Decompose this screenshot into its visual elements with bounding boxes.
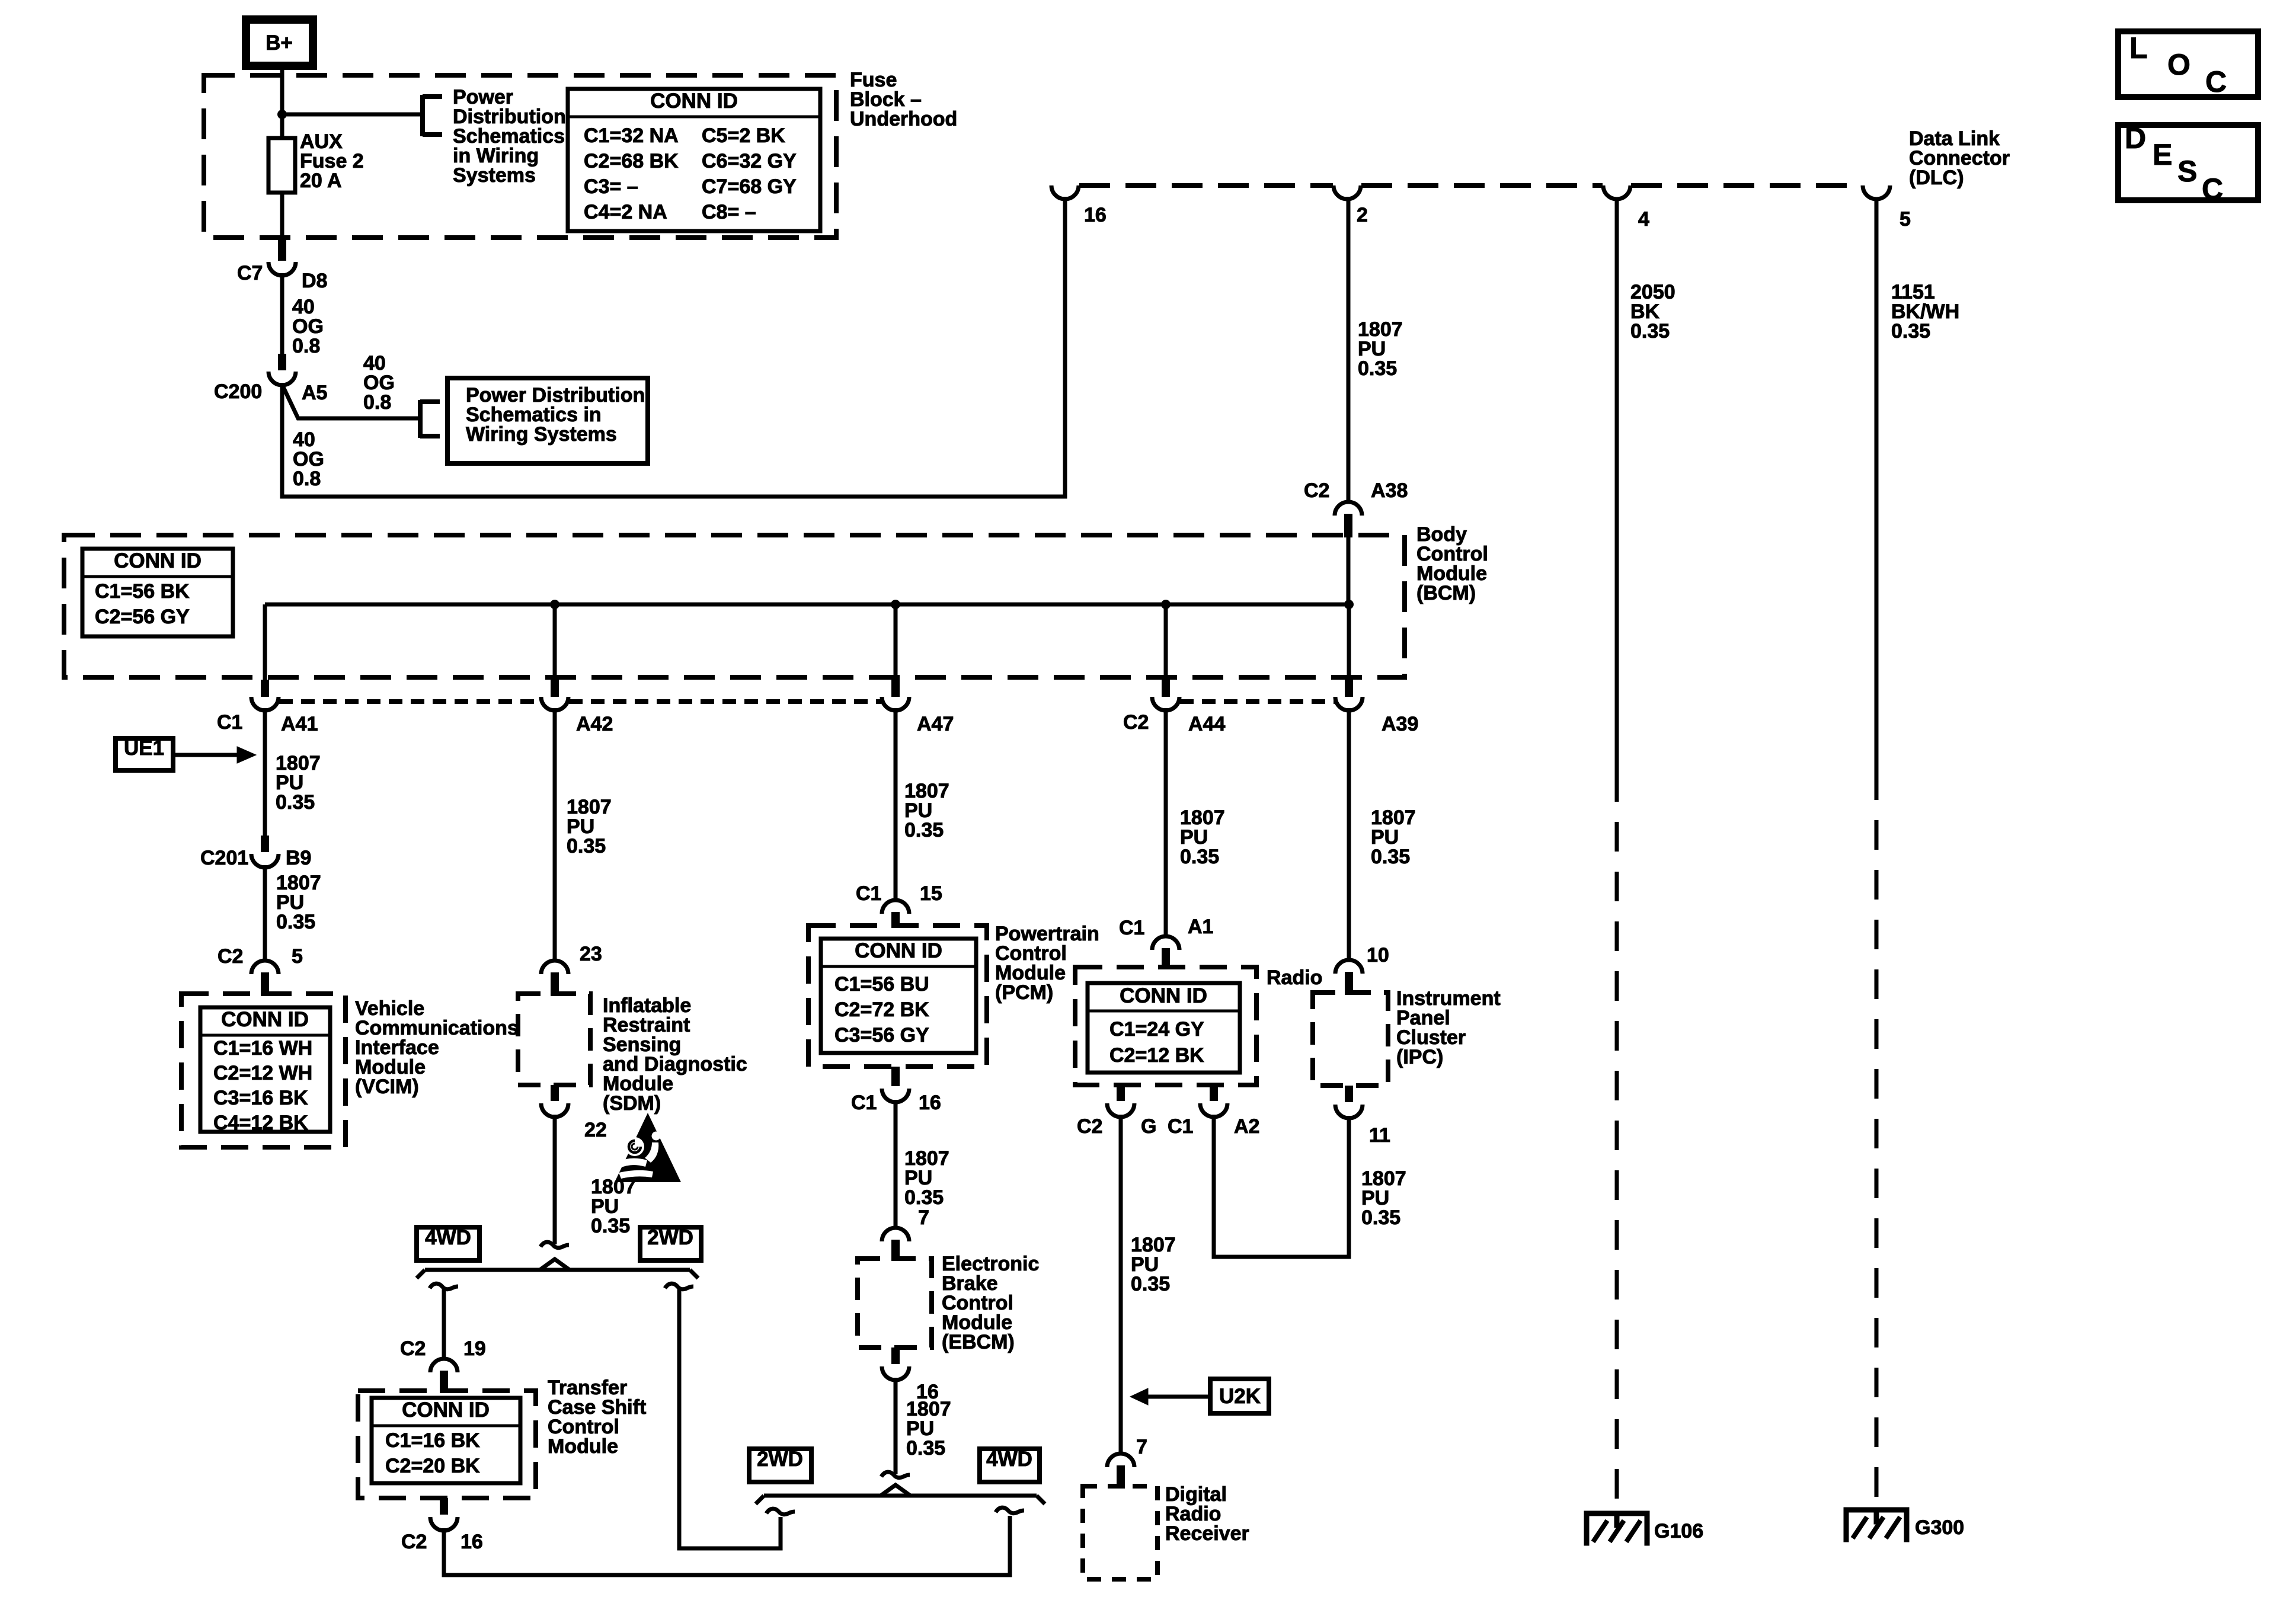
svg-text:0.35: 0.35 [1131, 1273, 1170, 1295]
DLC pin 5 [1863, 185, 1911, 231]
svg-text:10: 10 [1367, 944, 1389, 966]
svg-text:G106: G106 [1654, 1520, 1703, 1542]
body control module dashed box [64, 535, 1405, 677]
label 1807 PU 0.35 A47 [904, 780, 949, 841]
svg-text:C1=24 GY: C1=24 GY [1109, 1018, 1204, 1041]
node junction at fuse feed [277, 110, 287, 119]
vehicle communications interface module dashed box [181, 994, 346, 1147]
label 40 OG 0.8 below C200 [293, 428, 324, 490]
battery B+ feed box [246, 20, 313, 66]
svg-text:Wiring Systems: Wiring Systems [466, 423, 617, 446]
label EBCM [942, 1253, 1039, 1353]
svg-text:D8: D8 [302, 270, 327, 292]
svg-text:A1: A1 [1188, 916, 1213, 938]
DLC pin 16 [1051, 185, 1107, 226]
svg-text:C3= –: C3= – [584, 175, 638, 198]
label 1807 PU 0.35 pin2 [1358, 318, 1403, 380]
option hook split2 right [996, 1507, 1024, 1513]
wire A5 down and right to DLC pin 16 [282, 197, 1065, 497]
TCCM pin C2 16 cup [401, 1498, 483, 1553]
connector C2 pin 5 into VCIM [218, 945, 303, 996]
svg-text:CONN ID: CONN ID [855, 939, 942, 962]
svg-text:C1=16 BK: C1=16 BK [385, 1429, 480, 1452]
svg-text:B9: B9 [286, 847, 311, 869]
svg-text:16: 16 [1084, 204, 1107, 226]
svg-text:0.35: 0.35 [1891, 320, 1930, 343]
svg-text:C2: C2 [1304, 479, 1329, 502]
junction dot A47 [891, 600, 900, 609]
svg-text:B+: B+ [266, 31, 293, 55]
wire B+ to fuse [280, 66, 284, 138]
connector C200 pin A5 [214, 372, 327, 404]
svg-text:22: 22 [584, 1119, 607, 1141]
label Digital Radio Receiver [1165, 1483, 1249, 1545]
inflatable restraint SDM dashed box [518, 994, 590, 1085]
wire EBCM 16 to option split 2 [894, 1378, 898, 1474]
svg-text:C7=68 GY: C7=68 GY [702, 175, 797, 198]
label Data Link Connector (DLC) [1909, 127, 2010, 189]
option hook 2WD branch [665, 1283, 693, 1289]
label 1807 PU 0.35 A39 [1371, 806, 1416, 868]
option hook split2 left [766, 1509, 795, 1515]
svg-text:4WD: 4WD [986, 1448, 1032, 1471]
option hook 4WD branch [430, 1283, 458, 1289]
connector pin 7 into DRR [1107, 1436, 1147, 1489]
svg-text:L: L [2129, 31, 2148, 65]
wire A41 to C201 [261, 708, 269, 852]
U2K callout box and arrow [1130, 1379, 1269, 1413]
svg-text:0.8: 0.8 [293, 468, 321, 490]
svg-text:C2: C2 [218, 945, 243, 968]
wire branch C200 to reference [282, 385, 421, 418]
DLC pin 4 [1603, 185, 1649, 231]
4WD option box [417, 1226, 479, 1260]
label 1807 PU 0.35 IPC11 [1361, 1167, 1406, 1229]
UE1 callout box and arrow [116, 737, 256, 770]
ground G106 [1584, 1511, 1703, 1545]
svg-text:C5=2 BK: C5=2 BK [702, 124, 785, 147]
svg-text:C3=56 GY: C3=56 GY [834, 1024, 929, 1046]
wire A39 to IPC [1347, 708, 1351, 960]
label 1807 PU 0.35 below C201 [276, 872, 321, 933]
BCM internal bus [265, 535, 1349, 604]
svg-text:C2=56 GY: C2=56 GY [95, 606, 190, 628]
svg-text:2WD: 2WD [757, 1448, 803, 1471]
label fuse block underhood [850, 69, 957, 130]
wire DLC pin 2 to BCM A38 [1347, 197, 1351, 502]
svg-text:23: 23 [580, 943, 602, 965]
4WD option box 2 [980, 1448, 1040, 1482]
svg-text:S: S [2177, 155, 2197, 188]
label 1807 PU 0.35 A42 [567, 796, 612, 857]
label SDM [603, 994, 747, 1115]
svg-text:C2=12 BK: C2=12 BK [1109, 1044, 1204, 1067]
label Radio [1267, 966, 1322, 989]
2WD option box 2 [749, 1448, 811, 1482]
label TCCM [548, 1377, 646, 1458]
CONN ID table Radio [1088, 983, 1240, 1073]
connector pin 23 into SDM [541, 943, 602, 996]
svg-text:2: 2 [1357, 204, 1368, 226]
wire 4WD branch to TCCM [442, 1289, 446, 1359]
svg-text:15: 15 [920, 882, 942, 905]
svg-text:0.35: 0.35 [904, 1186, 944, 1209]
label 1807 PU 0.35 G wire [1131, 1234, 1176, 1295]
svg-text:2WD: 2WD [647, 1226, 693, 1249]
wire A47 to PCM [894, 708, 898, 900]
label 40 OG 0.8 branch [363, 352, 395, 414]
BCM pin A44 cup [1123, 697, 1225, 735]
label 1807 PU 0.35 EBCM16 [906, 1398, 951, 1459]
BCM drop A41 [261, 604, 269, 697]
PCM pin C1 16 cup [851, 1067, 941, 1114]
svg-text:A44: A44 [1188, 713, 1225, 735]
svg-text:0.8: 0.8 [363, 391, 391, 414]
svg-text:19: 19 [463, 1337, 486, 1360]
svg-text:0.35: 0.35 [1180, 846, 1219, 868]
svg-text:A41: A41 [281, 713, 318, 735]
svg-text:A5: A5 [302, 382, 327, 404]
svg-text:C8= –: C8= – [702, 201, 756, 223]
BCM drop A47 [891, 604, 900, 697]
svg-text:A47: A47 [917, 713, 954, 735]
svg-text:C2: C2 [400, 1337, 426, 1360]
fuse block underhood dashed box [204, 75, 836, 238]
BCM connector C2 dotted line [1180, 699, 1335, 704]
connector C201 pin B9 [200, 847, 311, 869]
DESC legend box [2118, 121, 2258, 206]
svg-text:A39: A39 [1382, 713, 1418, 735]
CONN ID table BCM [82, 549, 233, 636]
wire A44 to Radio [1164, 708, 1168, 936]
label 1807 PU 0.35 A44 [1180, 806, 1225, 868]
svg-text:G: G [1141, 1115, 1156, 1138]
svg-text:0.35: 0.35 [591, 1215, 630, 1237]
connector C1 pin 15 into PCM [856, 882, 942, 928]
svg-text:16: 16 [919, 1092, 941, 1114]
svg-text:C1: C1 [217, 711, 242, 734]
reference bracket power distribution [423, 95, 442, 136]
wire DLC pin 5 to G300 [1875, 200, 1879, 1507]
svg-text:4: 4 [1638, 208, 1649, 231]
wire fuse to C7 [278, 193, 286, 261]
data link connector dashed line [1079, 183, 1862, 188]
label AUX Fuse 2 20 A [300, 130, 364, 192]
label 1807 PU 0.35 A41 [276, 752, 321, 814]
svg-text:O: O [2167, 48, 2191, 81]
svg-text:(IPC): (IPC) [1396, 1046, 1443, 1068]
connector C1 pin A1 into Radio [1119, 916, 1213, 969]
svg-text:CONN ID: CONN ID [114, 549, 202, 572]
svg-text:Underhood: Underhood [850, 108, 957, 130]
SDM pin 22 cup [541, 1085, 607, 1141]
junction dot A42 [550, 600, 559, 609]
BCM pin A47 cup [882, 697, 954, 735]
svg-text:UE1: UE1 [124, 737, 164, 760]
svg-text:0.35: 0.35 [904, 819, 944, 841]
svg-text:(PCM): (PCM) [995, 981, 1053, 1004]
radio pin C2 G cup [1077, 1085, 1156, 1138]
svg-text:C2: C2 [1077, 1115, 1102, 1138]
label Body Control Module (BCM) [1416, 523, 1488, 604]
svg-text:0.35: 0.35 [276, 791, 315, 814]
svg-text:0.35: 0.35 [1371, 846, 1410, 868]
wire C201 to VCIM [263, 865, 267, 961]
svg-text:Radio: Radio [1267, 966, 1322, 989]
svg-text:D: D [2125, 121, 2146, 155]
svg-text:(EBCM): (EBCM) [942, 1331, 1015, 1353]
wire junction to reference bracket [282, 113, 421, 117]
svg-text:CONN ID: CONN ID [221, 1008, 309, 1031]
svg-text:(VCIM): (VCIM) [355, 1076, 419, 1098]
svg-text:CONN ID: CONN ID [1120, 984, 1207, 1007]
svg-text:C: C [2202, 172, 2223, 206]
fuse AUX Fuse 2 20 A [268, 138, 295, 193]
reference box power distribution schematics [447, 378, 648, 463]
svg-text:C7: C7 [237, 262, 263, 284]
svg-text:C1=56 BU: C1=56 BU [834, 973, 929, 996]
label PCM [995, 923, 1099, 1004]
svg-text:C1: C1 [1119, 917, 1144, 939]
svg-text:C2=20 BK: C2=20 BK [385, 1455, 480, 1477]
svg-text:C1: C1 [1168, 1115, 1193, 1138]
instrument panel cluster dashed box [1313, 993, 1388, 1086]
connector C2 pin 19 into TCCM [400, 1337, 486, 1393]
label IPC [1396, 987, 1501, 1068]
svg-text:C1=32 NA: C1=32 NA [584, 124, 679, 147]
svg-text:A38: A38 [1371, 479, 1408, 502]
svg-text:0.35: 0.35 [1361, 1206, 1400, 1229]
svg-text:0.35: 0.35 [1358, 357, 1397, 380]
BCM drop A42 [551, 604, 559, 697]
svg-text:A42: A42 [576, 713, 613, 735]
svg-text:0.35: 0.35 [567, 835, 606, 857]
svg-text:C6=32 GY: C6=32 GY [702, 150, 797, 172]
reference bracket 2 [420, 400, 440, 438]
wire PCM 16 to EBCM [894, 1100, 898, 1228]
svg-text:0.35: 0.35 [276, 911, 315, 933]
wire C7 to C200 label 40 OG 0.8 [278, 273, 324, 370]
svg-text:CONN ID: CONN ID [650, 89, 738, 113]
svg-text:(BCM): (BCM) [1416, 582, 1476, 604]
wire radio G to DRR [1119, 1115, 1123, 1454]
label power distribution schematics (fuse block) [453, 86, 566, 187]
BCM drop A44 [1162, 604, 1170, 697]
IPC pin 11 cup [1335, 1086, 1390, 1147]
BCM pin A42 cup [541, 697, 613, 735]
svg-text:C2=68 BK: C2=68 BK [584, 150, 679, 172]
option split brace 1 [417, 1259, 698, 1278]
svg-text:CONN ID: CONN ID [402, 1398, 490, 1422]
svg-text:C1=16 WH: C1=16 WH [213, 1037, 312, 1060]
svg-text:C2=72 BK: C2=72 BK [834, 998, 929, 1021]
svg-text:C2: C2 [1123, 711, 1149, 734]
svg-text:G300: G300 [1915, 1516, 1964, 1539]
junction dot A44 [1161, 600, 1171, 609]
svg-text:5: 5 [1900, 208, 1911, 231]
label 1807 PU 0.35 pin22 [591, 1176, 636, 1237]
svg-text:7: 7 [1136, 1436, 1147, 1458]
CONN ID table TCCM [372, 1398, 520, 1483]
EBCM pin 16 cup [882, 1347, 939, 1403]
wire TCCM 16 to split 2 4WD end [444, 1516, 1010, 1575]
svg-text:5: 5 [292, 945, 303, 968]
connector C2 A38 into BCM [1304, 479, 1408, 537]
svg-text:Receiver: Receiver [1165, 1522, 1249, 1545]
BCM pin A41 cup [217, 697, 318, 735]
radio dashed box [1075, 967, 1256, 1085]
svg-text:Systems: Systems [453, 164, 536, 187]
svg-text:7: 7 [918, 1206, 929, 1229]
radio pin C1 A2 cup [1168, 1085, 1259, 1138]
wire pin22 to option split [553, 1115, 557, 1244]
junction dot A39 [1344, 600, 1354, 609]
transfer case shift control module dashed box [358, 1391, 536, 1498]
CONN ID table PCM [821, 939, 976, 1053]
svg-text:(DLC): (DLC) [1909, 167, 1964, 189]
label VCIM [355, 997, 519, 1098]
option hook SDM wire [541, 1242, 569, 1248]
LOC legend box [2118, 31, 2258, 98]
CONN ID table VCIM [200, 1007, 330, 1134]
BCM drop A39 [1345, 604, 1353, 697]
wire radio A2 to IPC 11 [1214, 1115, 1349, 1257]
option split brace 2 [756, 1485, 1045, 1504]
svg-text:A2: A2 [1234, 1115, 1259, 1138]
svg-text:U2K: U2K [1219, 1385, 1261, 1408]
wire DLC pin 4 to G106 [1615, 200, 1619, 1511]
connector pin 7 into EBCM [882, 1206, 929, 1261]
svg-text:0.35: 0.35 [906, 1437, 945, 1459]
svg-text:4WD: 4WD [425, 1226, 471, 1249]
connector C7 pin D8 [237, 262, 327, 292]
svg-text:0.8: 0.8 [292, 335, 320, 357]
digital radio receiver dashed box [1083, 1486, 1157, 1579]
svg-text:Module: Module [548, 1435, 618, 1458]
svg-text:C1: C1 [851, 1092, 877, 1114]
BCM connector C1 dotted line [279, 699, 881, 704]
wire 2WD branch to split 2 [679, 1289, 781, 1548]
svg-text:11: 11 [1369, 1124, 1390, 1147]
svg-text:C1: C1 [856, 882, 881, 905]
svg-text:C4=12 BK: C4=12 BK [213, 1112, 308, 1134]
svg-text:C4=2 NA: C4=2 NA [584, 201, 667, 223]
svg-text:E: E [2153, 138, 2172, 171]
svg-text:(SDM): (SDM) [603, 1092, 661, 1115]
svg-text:C: C [2205, 65, 2227, 98]
svg-text:C201: C201 [200, 847, 248, 869]
DLC pin 2 [1334, 185, 1368, 226]
CONN ID table fuse block [568, 89, 820, 231]
svg-text:C1=56 BK: C1=56 BK [95, 580, 190, 603]
airbag warning triangle [615, 1113, 681, 1182]
label 2050 BK 0.35 [1630, 281, 1675, 343]
svg-text:C2: C2 [401, 1531, 427, 1553]
label 1807 PU 0.35 PCM16 [904, 1147, 949, 1209]
ground G300 [1844, 1507, 1964, 1542]
electronic brake control module dashed box [858, 1259, 932, 1347]
svg-text:0.35: 0.35 [1630, 320, 1670, 343]
svg-text:C3=16 BK: C3=16 BK [213, 1087, 308, 1109]
BCM pin A39 cup [1335, 697, 1418, 735]
svg-text:C2=12 WH: C2=12 WH [213, 1062, 312, 1084]
label 1151 BK/WH 0.35 [1891, 281, 1959, 343]
svg-text:C200: C200 [214, 380, 262, 403]
wire A42 to SDM [553, 708, 557, 961]
connector pin 10 into IPC [1335, 944, 1389, 995]
svg-text:16: 16 [461, 1531, 483, 1553]
svg-text:20 A: 20 A [300, 169, 342, 192]
2WD option box [640, 1226, 701, 1260]
powertrain control module dashed box [808, 926, 987, 1067]
option hook EBCM wire [881, 1472, 910, 1478]
